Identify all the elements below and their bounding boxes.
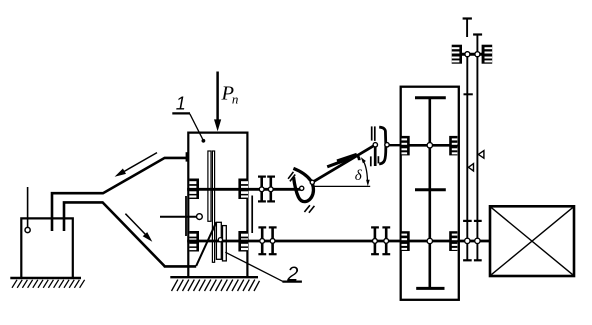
- nozzle lever: [196, 222, 216, 266]
- disk 2b: [223, 226, 227, 261]
- test chamber 1 housing: [188, 133, 247, 277]
- force Pn arrow: [214, 72, 221, 132]
- svg-text:2: 2: [286, 263, 298, 285]
- return pipe (upper): [52, 158, 186, 231]
- bearing lower-left: [189, 231, 199, 252]
- V2 upper junction bar: [474, 220, 482, 222]
- junction circles: [465, 238, 481, 243]
- V1 tick: [464, 93, 473, 95]
- coupling K2 circles: [260, 239, 275, 244]
- bearing upper-right: [238, 179, 248, 200]
- bearing lower-right: [238, 231, 248, 252]
- joint 2 prongs upper: [372, 126, 375, 140]
- joint 1 cross circles: [300, 180, 315, 190]
- spline hook: [357, 156, 359, 161]
- top assembly shaft: [462, 53, 483, 56]
- joint 2 cross circles: [373, 143, 389, 147]
- gearbox input stub: [387, 144, 401, 146]
- gear G1: [402, 136, 410, 156]
- coupling K3 beam1: [371, 227, 379, 254]
- label 1 dot: [202, 139, 206, 143]
- motor diagonal 2: [491, 208, 572, 275]
- coupling K2 beam2: [269, 227, 277, 254]
- gearbox housing: [401, 87, 459, 300]
- coupling K3 circles: [373, 239, 389, 244]
- middle gear bar: [415, 188, 446, 191]
- disk 2a: [216, 222, 221, 259]
- V1 end bar: [463, 259, 472, 261]
- V2 top bar: [473, 33, 482, 35]
- joint 2 shaft stub below: [374, 148, 377, 167]
- ground line under test chamber: [170, 276, 258, 278]
- angle arc: [362, 159, 368, 181]
- joint 1 prong marks: [288, 172, 314, 213]
- svg-text:1: 1: [176, 94, 186, 114]
- triangle on V2: [478, 151, 484, 159]
- spline sleeve strokes: [327, 154, 357, 166]
- motor box: [490, 206, 574, 276]
- V1 upper junction bar: [463, 220, 472, 222]
- coupling K3 beam2: [382, 227, 390, 254]
- ground line under tank: [10, 277, 81, 279]
- ground hatching under tank: [12, 280, 85, 288]
- label 2 leader: [225, 252, 282, 281]
- label 1 leader: [190, 114, 203, 140]
- gear G4: [449, 231, 457, 251]
- gear G6: [482, 45, 493, 64]
- lower shaft: [187, 240, 490, 243]
- motor diagonal 1: [491, 208, 572, 275]
- bearing upper-left: [189, 179, 199, 200]
- probe ball: [197, 214, 203, 220]
- joint 2 C bracket: [379, 127, 386, 164]
- top gear bar: [415, 96, 446, 99]
- coupling K1 beam1: [258, 177, 266, 202]
- gear G2: [449, 136, 457, 156]
- ground hatching under test chamber: [172, 280, 260, 291]
- label 2 shelf: [282, 281, 302, 283]
- disk 2 hub circle: [218, 238, 222, 242]
- label 1 shelf: [172, 112, 190, 114]
- angle arrowhead top: [361, 157, 366, 163]
- upper shaft: [187, 188, 302, 191]
- pressure plate B: [212, 151, 214, 262]
- probe stem: [160, 216, 197, 218]
- joint 2 prongs lower: [371, 156, 379, 166]
- angle arrowhead bottom: [366, 180, 370, 186]
- gearbox lower circle: [427, 238, 432, 243]
- belt shaft V2: [476, 35, 478, 261]
- cardan joint 1 fork: [293, 168, 313, 201]
- top assembly circles: [465, 52, 480, 57]
- V2 end bar: [474, 259, 482, 261]
- supply pipe (lower): [64, 202, 196, 266]
- coupling K1 circles: [259, 187, 273, 192]
- gearbox upper circle: [427, 143, 432, 148]
- flow arrow lower: [125, 214, 152, 242]
- pipe flange tick: [186, 152, 188, 161]
- oil tank: [21, 218, 73, 278]
- bracket line right of chamber: [251, 196, 253, 234]
- gear G5: [452, 45, 462, 64]
- flow arrow upper: [115, 153, 157, 177]
- breather line: [27, 187, 29, 228]
- coupling K2 beam1: [258, 227, 266, 254]
- angle reference line: [312, 185, 370, 187]
- V1 top bar: [463, 17, 472, 19]
- belt shaft V1: [466, 19, 468, 38]
- gearbox upper shaft: [401, 144, 459, 147]
- wall plate: [185, 196, 187, 236]
- gear G3: [402, 231, 410, 251]
- svg-text:δ: δ: [355, 168, 363, 184]
- cardan intermediate shaft: [312, 145, 375, 183]
- gearbox vertical shaft: [428, 98, 431, 289]
- bottom gear bar: [416, 287, 444, 290]
- triangle on V1: [468, 164, 473, 171]
- coupling K1 beam2: [267, 177, 275, 202]
- friction disk A: [208, 151, 211, 221]
- breather ball: [25, 227, 30, 232]
